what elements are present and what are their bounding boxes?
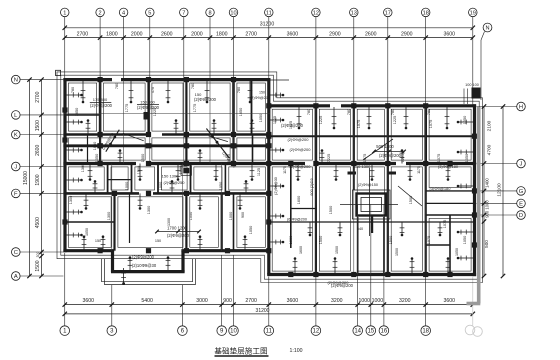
axis bubble 11 [265,8,274,17]
svg-text:150 1300: 150 1300 [162,174,179,179]
axis bubble 2 [96,8,105,17]
svg-text:1600: 1600 [289,236,293,244]
svg-text:1: 1 [63,11,66,17]
svg-text:8: 8 [208,11,211,17]
svg-text:1225: 1225 [401,154,405,162]
svg-text:1000: 1000 [229,212,233,220]
axis bubble 8 [206,8,215,17]
top axis bubbles row [61,8,478,17]
axis bubble J [12,162,21,171]
svg-text:1500: 1500 [409,196,413,204]
bathroom partition vertical x450 lower right [449,215,451,275]
svg-text:1500: 1500 [329,206,333,214]
svg-text:1050: 1050 [85,228,89,236]
svg-text:1050: 1050 [219,182,223,190]
N axis stub line right of axis 11 [270,79,289,81]
interior wall: axis 13 vertical lower right block [353,164,355,191]
interior wall: axis 9 vertical lower left block [221,193,223,250]
svg-text:1000: 1000 [125,182,129,190]
svg-text:14: 14 [354,329,361,335]
interior wall: axis 10 vertical [232,80,235,135]
recess rebar stem with dot [123,268,125,284]
exterior wall: left block bottom (axis C) with entrance recess [63,249,114,252]
interior wall: axis 18 vertical lower right block [425,164,427,275]
svg-text:1075: 1075 [427,236,431,244]
svg-text:1050: 1050 [463,116,467,124]
interior wall: axis 5 vertical [147,80,149,135]
stair partition x87.5 [87,135,89,164]
svg-text:(2)Φ9@200: (2)Φ9@200 [250,96,270,100]
svg-text:1050: 1050 [259,114,263,122]
svg-text:7225: 7225 [327,154,331,162]
svg-text:1500: 1500 [389,236,393,244]
svg-text:1050: 1050 [463,236,467,244]
svg-text:2600: 2600 [161,32,173,38]
svg-text:1500: 1500 [35,260,41,271]
K-axis foundation beam across left block [63,144,270,147]
exterior wall: right block top (axis H) [267,104,476,107]
svg-text:F: F [14,192,18,198]
interior wall: axis 12 vertical lower right block [315,164,317,275]
svg-text:2900: 2900 [329,32,341,38]
svg-text:1500: 1500 [395,248,399,256]
svg-text:780: 780 [391,109,395,115]
svg-text:C: C [14,250,18,256]
gray cushion band along right exterior [467,107,481,304]
svg-text:K: K [14,133,18,139]
svg-text:1225: 1225 [153,108,157,116]
top-right tilted axis bubble [481,23,492,100]
axis bubble L [12,111,21,120]
svg-text:600 (2)Φ9: 600 (2)Φ9 [310,178,314,195]
svg-text:7: 7 [182,11,185,17]
right axis bubbles column [517,102,526,219]
foundation beam across lower right block [269,221,475,223]
svg-text:1175: 1175 [417,166,421,174]
svg-text:(6)Φ9@200: (6)Φ9@200 [287,218,307,222]
svg-text:900: 900 [223,298,232,304]
svg-text:G: G [519,189,524,195]
axis bubble 11 [264,326,274,336]
corner column blob above right wall top [472,88,481,99]
axis bubble A [12,272,21,281]
interior wall: axis K horizontal left block [63,133,270,136]
axis bubble 9 [217,326,227,336]
bathroom partition horizontal y245 lower right [426,244,450,246]
svg-text:1400: 1400 [485,178,490,188]
svg-text:100 100: 100 100 [465,83,479,87]
svg-text:4700: 4700 [487,144,493,155]
svg-text:1050: 1050 [249,226,253,234]
svg-text:1125: 1125 [257,168,261,176]
axis bubble H [517,102,526,111]
axis bubble 3 [107,326,117,336]
room cushion inset outlines [68,83,471,271]
exterior wall: right (axis 19) [473,104,476,276]
svg-text:2700: 2700 [35,91,41,102]
interior wall: axis 18 vertical right block [424,106,427,164]
svg-text:12: 12 [313,11,319,17]
svg-text:780: 780 [347,109,351,115]
left overall dimension line 15000 [23,77,32,278]
svg-text:(2)Φ9@150: (2)Φ9@150 [358,183,378,187]
svg-text:1125: 1125 [289,121,293,129]
svg-text:540: 540 [357,227,363,231]
svg-text:2700: 2700 [245,298,257,304]
svg-text:(3)Φ9@180: (3)Φ9@180 [438,165,458,169]
svg-text:D: D [519,213,523,219]
svg-text:470: 470 [151,87,155,93]
svg-text:1075: 1075 [357,120,361,128]
svg-text:780: 780 [115,83,119,89]
axis bubble 17 [384,8,393,17]
left axis bubbles column [12,75,21,280]
interior wall: axis 10 vertical lower left block [233,193,235,250]
svg-text:11: 11 [266,329,273,335]
svg-text:2700: 2700 [77,32,89,38]
svg-text:1050: 1050 [95,154,99,162]
svg-text:15000: 15000 [23,171,29,185]
svg-text:1600: 1600 [297,196,301,204]
top axis leader lines [65,17,473,106]
svg-text:780: 780 [191,83,195,89]
wall axis 2 between K and J [99,135,101,164]
left axis leader lines [20,80,63,276]
svg-text:(2)Φ9@200: (2)Φ9@200 [132,254,155,259]
exterior wall: right block bottom (axis A) [267,273,476,276]
interior wall: axis 14-16 stub walls at bottom [357,217,359,275]
column pads (black squares) at wall intersections [62,77,477,277]
axis bubble 12 [312,8,321,17]
partition y208.5 between axes 11b and 12 [291,208,316,210]
svg-text:A: A [14,274,18,280]
svg-text:5: 5 [148,11,151,17]
svg-text:1000: 1000 [372,298,384,304]
partition wall in J-F band [108,179,132,181]
svg-text:E: E [519,202,523,208]
svg-text:1050: 1050 [455,248,459,256]
svg-text:15: 15 [367,329,374,335]
svg-text:3200: 3200 [331,298,343,304]
svg-text:1000: 1000 [159,182,163,190]
svg-text:(2)Φ9@200: (2)Φ9@200 [167,233,190,238]
svg-text:N: N [485,26,489,32]
axis bubble 13 [350,8,359,17]
svg-text:1050: 1050 [93,142,97,150]
partition y222 in leftmost F-C room [65,221,115,223]
svg-text:300: 300 [36,252,40,258]
svg-text:150 800: 150 800 [140,99,155,104]
svg-text:1500: 1500 [319,236,323,244]
svg-text:1075: 1075 [443,220,447,228]
exterior wall: left (axis 1) [63,78,66,252]
svg-text:J: J [14,165,17,171]
right overall dimension line 12100 [497,104,506,278]
entrance recess cushion outline (double thin) [102,259,196,285]
small pile cap in J-F band [181,166,192,176]
svg-text:2000: 2000 [131,32,143,38]
svg-text:2700: 2700 [245,32,257,38]
svg-text:1050: 1050 [189,212,193,220]
svg-text:11: 11 [266,11,272,17]
partition walls in J-F band [107,164,109,194]
svg-text:2000: 2000 [191,32,203,38]
bottom overall dimension line 31200 [63,308,475,316]
interior wall: axis 12 vertical right block [315,106,318,164]
right segment dimension line with values [482,104,493,278]
svg-text:1600: 1600 [299,246,303,254]
svg-text:2100: 2100 [487,120,493,131]
svg-text:(2)Φ9@200: (2)Φ9@200 [287,137,309,142]
axis bubble G [517,187,526,196]
small wall: bathroom partitions at axes G and D right block [426,190,475,192]
axis bubble 12 [311,326,321,336]
axis bubble 1 [61,8,70,17]
foundation beam line along axis K across right block [269,135,476,137]
svg-text:12100: 12100 [497,183,503,197]
svg-text:1050: 1050 [465,154,469,162]
interior wall: axis 17 vertical lower right block [387,164,389,275]
svg-text:1500: 1500 [335,246,339,254]
svg-text:1000: 1000 [358,298,370,304]
axis bubble D [517,211,526,220]
svg-text:1300: 1300 [147,206,151,214]
svg-text:1500: 1500 [137,166,141,174]
svg-text:1075: 1075 [363,154,367,162]
faint ghost bubbles bottom right [465,277,482,337]
svg-text:1:100: 1:100 [290,348,303,354]
interior wall: axis 2 vertical [99,80,102,135]
svg-text:19: 19 [470,11,476,17]
svg-text:17: 17 [385,11,391,17]
svg-text:1800: 1800 [106,32,118,38]
svg-text:1300: 1300 [69,196,73,204]
svg-text:2900: 2900 [401,32,413,38]
axis bubble 14 [353,326,363,336]
svg-text:5400: 5400 [141,298,153,304]
svg-text:N: N [14,78,18,84]
interior wall: axis 17 vertical right block [387,106,389,164]
interior wall: axis 3 vertical lower left block [113,193,115,250]
narrow room divider x251.5 top band [251,80,253,135]
scattered rebar annotation texts [69,83,479,288]
svg-text:1300: 1300 [167,218,171,226]
svg-text:1175: 1175 [283,166,287,174]
interior wall: axis J horizontal full width [63,162,476,165]
svg-text:780: 780 [71,87,75,93]
svg-text:31200: 31200 [260,21,275,27]
axis bubble 7 [180,8,189,17]
svg-text:2600: 2600 [35,145,41,156]
svg-text:1500: 1500 [35,120,41,131]
svg-text:3600: 3600 [287,32,299,38]
axis bubble 1 [60,326,70,336]
svg-text:900 1000: 900 1000 [485,200,490,218]
door gaps in walls [112,78,406,195]
svg-text:3200: 3200 [399,298,411,304]
wall axis 10 between K and J [232,135,234,164]
interior thin axis grid lines [64,80,426,275]
top overall dimension line 31200 [63,21,475,30]
svg-text:150: 150 [259,91,265,95]
axis bubble 6 [178,326,188,336]
axis bubble 15 [366,326,376,336]
svg-text:900: 900 [241,212,245,218]
axis bubble J [517,159,526,168]
small dimension callout lines in plan [90,102,406,233]
axis bubble E [517,199,526,208]
svg-text:780: 780 [427,109,431,115]
central pile cap nested squares [340,168,398,236]
rebar stems with cross ticks on walls [67,81,474,275]
drawing title 基础垫层施工图 underlined [214,345,302,356]
svg-text:16: 16 [381,329,388,335]
svg-text:31200: 31200 [256,308,270,314]
svg-text:基础垫层施工图: 基础垫层施工图 [214,345,267,355]
axis bubble 4 [119,8,128,17]
svg-text:1125: 1125 [227,154,231,162]
svg-text:3600: 3600 [287,298,299,304]
svg-text:12: 12 [313,329,320,335]
svg-text:4500: 4500 [35,217,41,228]
svg-text:500 1300: 500 1300 [376,144,394,149]
exterior wall: left block top (axis N) [63,78,270,81]
interior wall: axis 7 vertical lower left block [185,193,187,250]
svg-text:1900: 1900 [35,174,41,185]
svg-text:H: H [519,105,523,111]
svg-text:1775: 1775 [125,104,129,112]
misc diagonals right block [363,139,422,206]
svg-text:(2)Φ9@30: (2)Φ9@30 [274,177,278,195]
corner box at cushion top-left [56,70,61,75]
svg-text:18: 18 [423,11,429,17]
svg-text:1050: 1050 [75,108,79,116]
axis bubble 16 [379,326,389,336]
svg-text:(2)10Φ9@30: (2)10Φ9@30 [132,263,157,268]
wall axis 7 between K and J [185,135,187,164]
svg-text:1125: 1125 [273,116,277,124]
svg-text:13: 13 [351,11,357,17]
svg-text:10: 10 [230,11,236,17]
axis bubble C [12,248,21,257]
svg-text:10: 10 [230,329,237,335]
interior wall: axis 13 vertical right block [353,106,355,164]
narrow room divider x252.5 K-J band [252,135,254,164]
svg-text:1000: 1000 [179,166,183,174]
axis bubble 19 [469,8,478,17]
top segment dimension line with ticks and values [63,32,475,40]
interior wall: axis 7 vertical [185,80,187,135]
axis bubble 5 [146,8,155,17]
svg-text:1300: 1300 [107,212,111,220]
axis bubble F [12,189,21,198]
svg-text:1500: 1500 [141,154,145,162]
right axis leader lines [477,107,517,216]
svg-text:1300: 1300 [81,164,85,172]
svg-text:(2)Φ9@200: (2)Φ9@200 [289,147,311,152]
left segment dimension line with ticks and values [35,77,44,278]
svg-text:3000: 3000 [196,298,208,304]
axis bubble K [12,130,21,139]
svg-text:150: 150 [155,239,161,243]
staircase diagonal run 1 with section dots [101,130,143,152]
interior wall: axis F horizontal left block [63,192,270,195]
bottom axis leader lines [65,222,426,326]
axis bubble 18 [421,326,431,336]
svg-text:2: 2 [99,11,102,17]
svg-text:1075: 1075 [429,120,433,128]
svg-text:3600: 3600 [443,298,455,304]
axis bubble 10 [229,8,238,17]
svg-text:3600: 3600 [83,298,95,304]
wall segment on axis L in first room [65,114,100,116]
interior wall: axis 11 vertical [267,78,270,275]
svg-text:(2)Φ9@200: (2)Φ9@200 [327,280,349,285]
axis bubble 10 [229,326,239,336]
partition axis E right block [426,202,475,204]
svg-text:(2)Φ9@200: (2)Φ9@200 [90,103,113,108]
svg-text:175 800: 175 800 [93,97,108,102]
stub wall axis 11b lower right block [290,164,292,249]
svg-text:1075: 1075 [437,154,441,162]
svg-text:500 1300: 500 1300 [354,164,371,169]
bottom segment dimension line with ticks and values [63,298,475,307]
svg-text:1225: 1225 [319,116,323,124]
svg-text:150: 150 [95,239,101,243]
foundation cushion outer outline (double thin) [57,72,483,283]
svg-text:3600: 3600 [443,32,455,38]
svg-text:500: 500 [484,240,489,248]
svg-text:1050: 1050 [239,108,243,116]
svg-text:780: 780 [307,109,311,115]
beam column blobs [97,143,271,148]
svg-text:(3)Φ9@180: (3)Φ9@180 [429,186,451,191]
partition stub lower left block [129,193,131,243]
staircase diagonal run 2 with section dots [206,129,236,169]
svg-text:1225: 1225 [393,116,397,124]
svg-text:2600: 2600 [365,32,377,38]
svg-text:18: 18 [422,329,429,335]
axis bubble 18 [421,8,430,17]
svg-text:J: J [520,162,523,168]
svg-text:(2)Φ9@250: (2)Φ9@250 [163,180,185,185]
svg-text:(2)Φ9@200: (2)Φ9@200 [379,153,402,158]
svg-text:(2)Φ9@200: (2)Φ9@200 [289,164,311,169]
svg-text:(2)Φ9@200: (2)Φ9@200 [194,97,217,102]
svg-text:1775: 1775 [193,104,197,112]
bottom axis bubbles row [60,326,431,336]
svg-text:1800: 1800 [216,32,228,38]
svg-text:4: 4 [122,11,125,17]
svg-text:780: 780 [237,87,241,93]
axis bubble N [12,75,21,84]
